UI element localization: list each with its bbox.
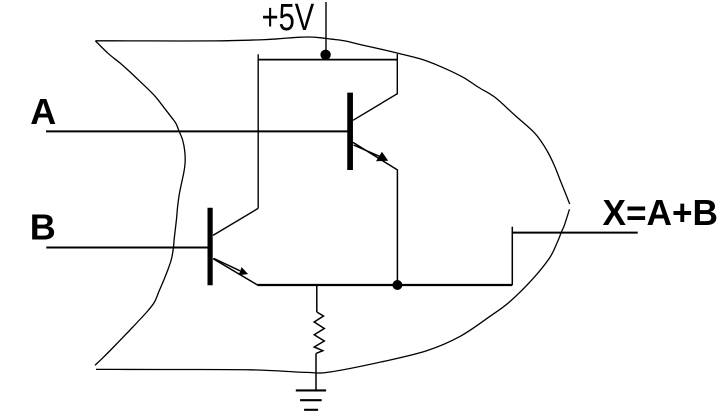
- transistor Q1 emitter: [353, 142, 397, 285]
- wire: Q2 collector riser: [257, 54, 259, 208]
- wire: output lead: [512, 232, 637, 234]
- wire: +5V drop to rail: [325, 2, 327, 55]
- wire: resistor top stub: [316, 285, 318, 312]
- transistor Q2 emitter arrow: [214, 259, 240, 271]
- wire: output riser: [511, 227, 513, 285]
- svg-text:+5V: +5V: [262, 0, 315, 39]
- svg-text:X=A+B: X=A+B: [603, 192, 719, 233]
- junction dot at +5V rail: [320, 50, 330, 60]
- wire: input B to Q2 base: [46, 247, 207, 249]
- OR gate bottom curve: [96, 209, 570, 373]
- wire: emitter rail: [258, 284, 513, 286]
- wire: input A to Q1 base: [46, 130, 348, 132]
- svg-text:B: B: [30, 207, 56, 248]
- OR gate top curve: [95, 37, 569, 204]
- svg-text:A: A: [30, 91, 56, 132]
- transistor Q1 base bar: [347, 93, 353, 170]
- wire: Q1 collector: [353, 54, 397, 120]
- transistor Q2 collector: [213, 208, 258, 235]
- OR gate left (input-side) concave curve: [95, 41, 185, 365]
- wire: resistor bottom stub to ground: [315, 353, 317, 390]
- resistor R1 zigzag: [314, 312, 324, 353]
- transistor Q2 base bar: [208, 208, 213, 286]
- transistor Q1 emitter arrow: [354, 145, 381, 157]
- ground symbol: [296, 389, 326, 391]
- junction dot on emitter rail: [392, 280, 402, 290]
- wire: top supply rail: [258, 59, 397, 61]
- transistor Q2 emitter: [213, 259, 258, 286]
